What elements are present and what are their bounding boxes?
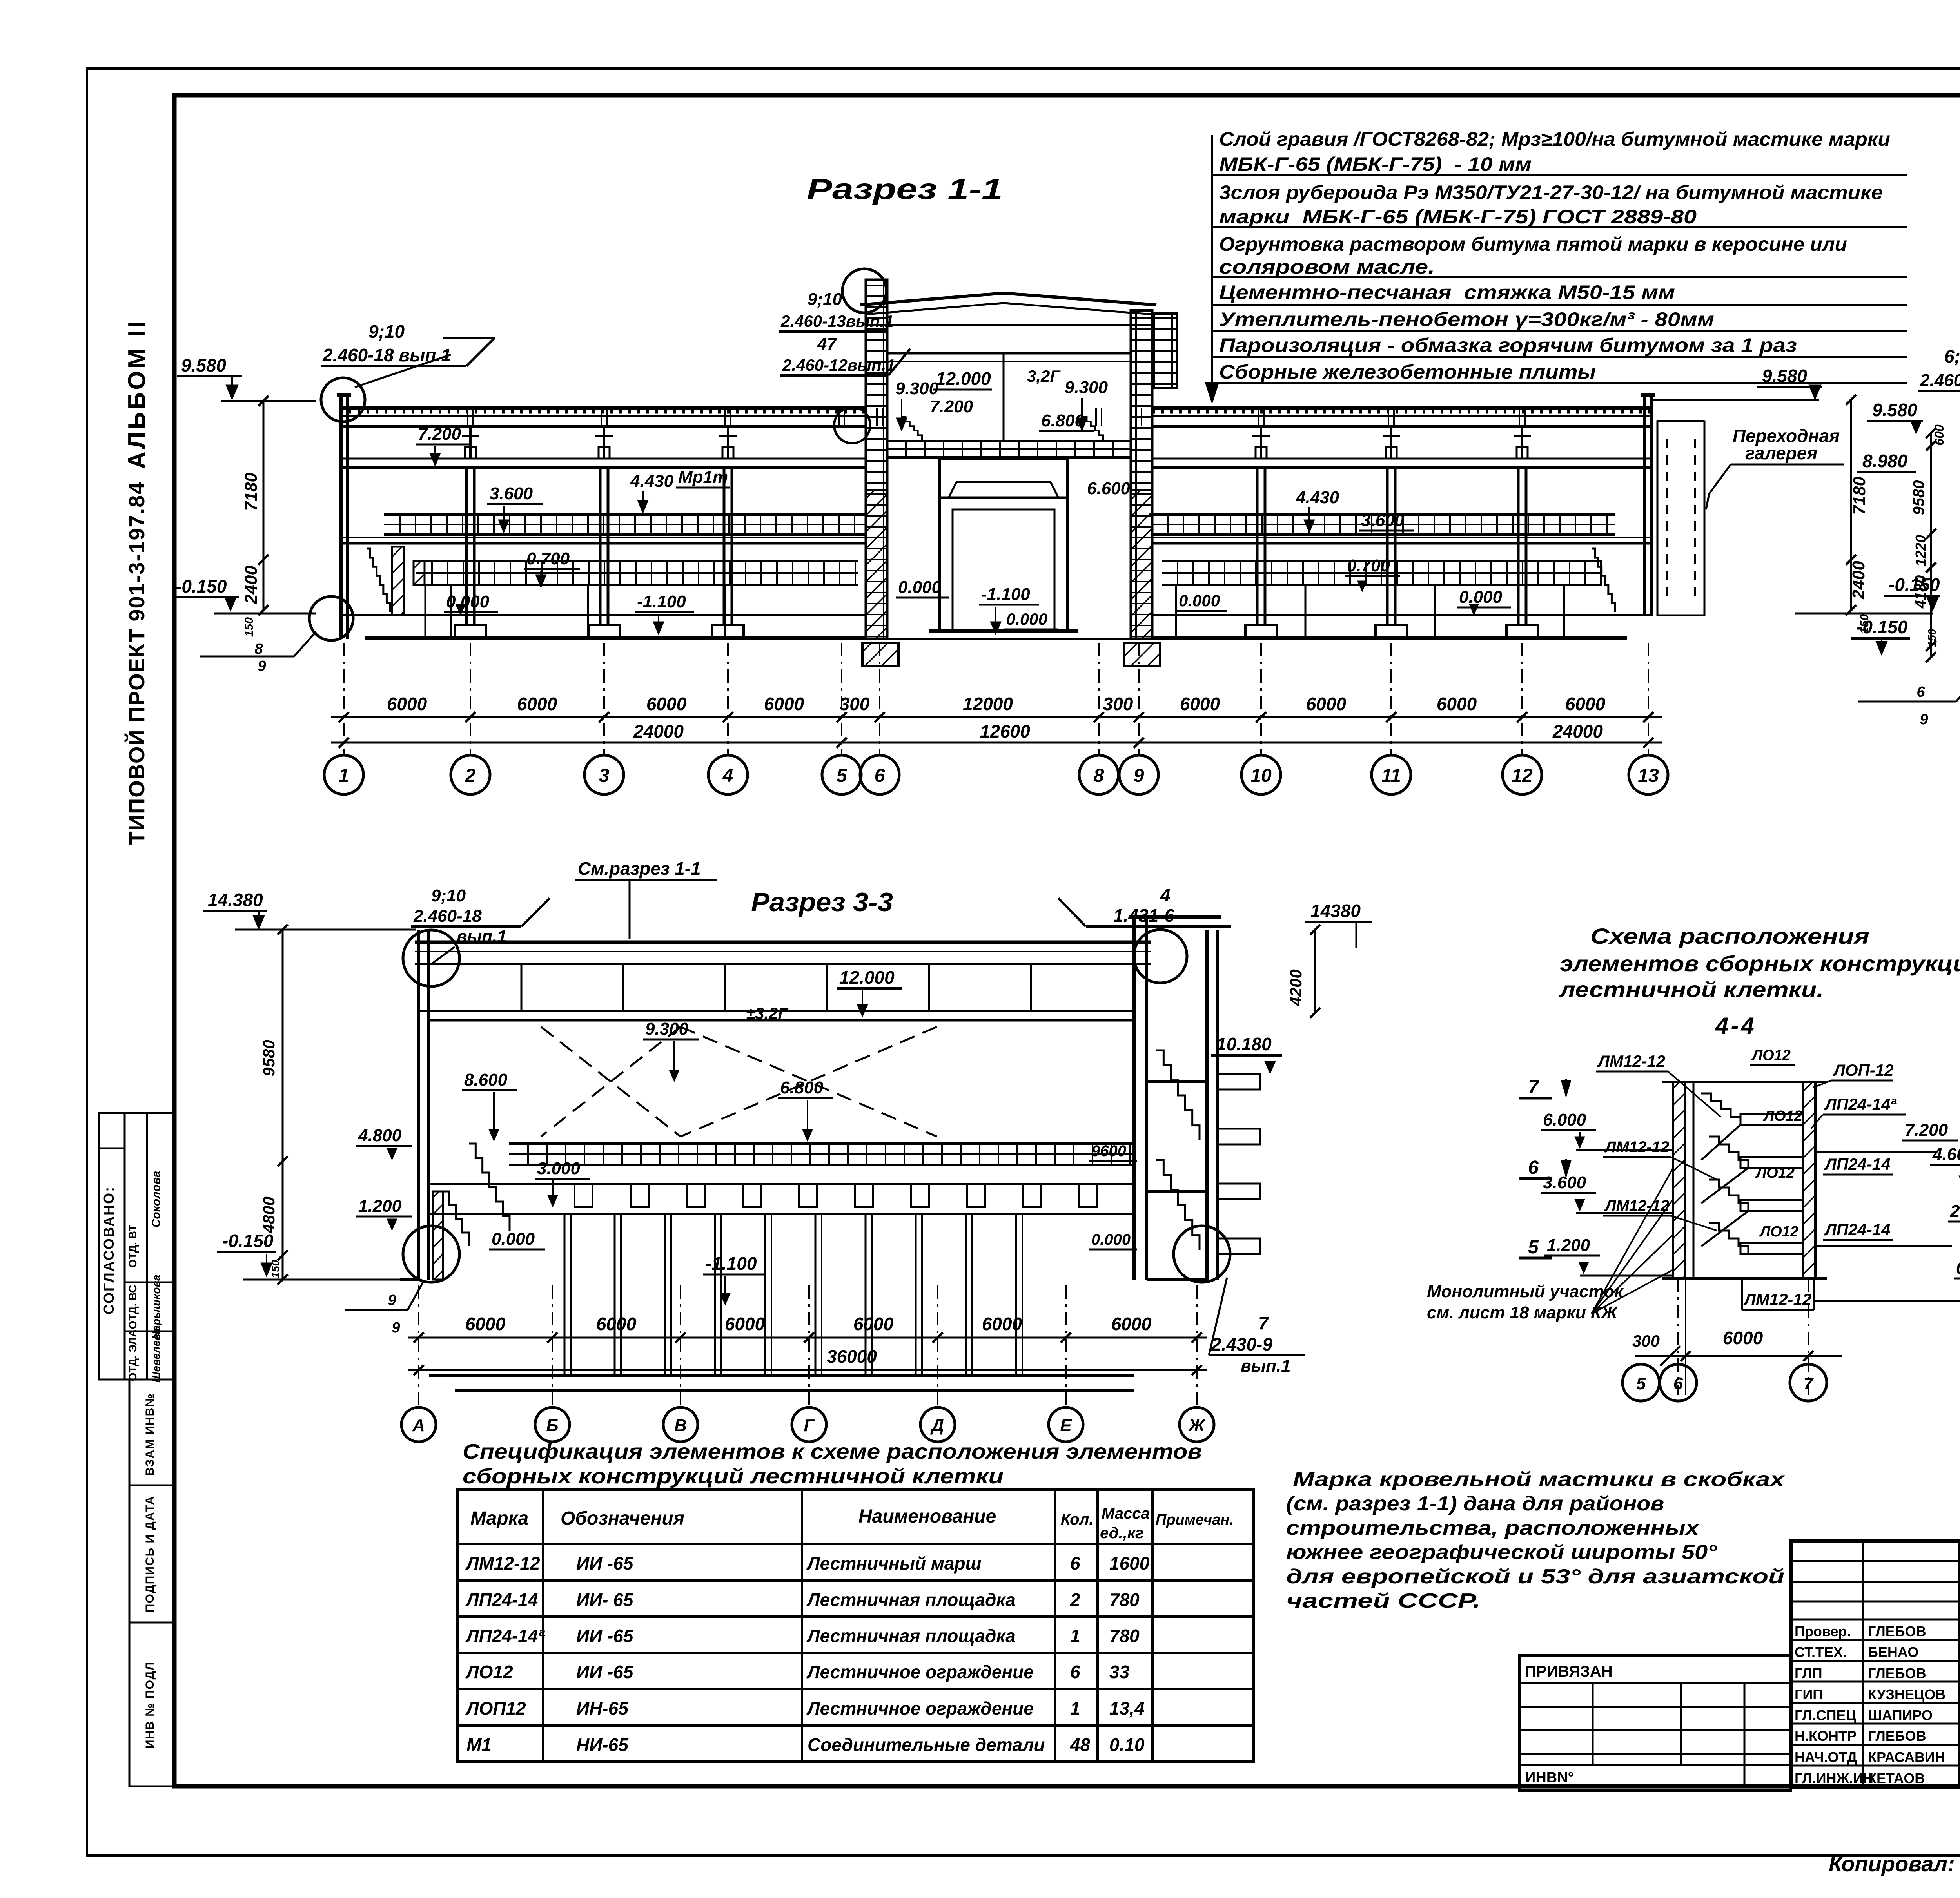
basement pit right — [1152, 636, 1627, 640]
margin cells inv/sign — [129, 1380, 174, 1786]
svg-text:6.800: 6.800 — [1041, 411, 1085, 430]
svg-text:47: 47 — [817, 334, 837, 353]
svg-text:0.10: 0.10 — [1109, 1735, 1145, 1755]
section 1-1 right wing roof — [1152, 406, 1653, 410]
svg-text:6: 6 — [1070, 1662, 1080, 1682]
svg-text:9580: 9580 — [260, 1040, 278, 1076]
svg-text:1: 1 — [339, 765, 349, 786]
left wing tank end wall — [414, 561, 425, 585]
svg-text:9.580: 9.580 — [181, 355, 227, 375]
svg-text:1: 1 — [1070, 1698, 1080, 1719]
svg-text:ЛО12: ЛО12 — [465, 1662, 513, 1682]
svg-text:9.300: 9.300 — [895, 379, 939, 398]
svg-text:Масса: Масса — [1102, 1505, 1150, 1522]
detail 4-4 landings — [1740, 1114, 1803, 1125]
svg-text:3: 3 — [599, 765, 610, 786]
svg-text:4800: 4800 — [260, 1196, 278, 1233]
svg-text:4: 4 — [1160, 885, 1171, 905]
svg-text:12: 12 — [1512, 765, 1533, 786]
svg-text:150: 150 — [269, 1260, 281, 1278]
pylon top circle — [842, 269, 886, 313]
central bay door — [940, 498, 1067, 631]
svg-text:ГЛЕБОВ: ГЛЕБОВ — [1868, 1728, 1926, 1744]
ground line 0.000 right — [1152, 614, 1653, 616]
svg-text:12.000: 12.000 — [839, 967, 895, 988]
pylon mid circle — [834, 407, 870, 443]
detail 4-4 walls — [1673, 1082, 1685, 1278]
svg-text:13,4: 13,4 — [1109, 1698, 1145, 1719]
svg-text:9;10: 9;10 — [431, 886, 466, 905]
section 2-2 bottom-left leader 6/9 — [1858, 701, 1956, 703]
svg-text:780: 780 — [1109, 1590, 1140, 1610]
svg-text:ИИ -65: ИИ -65 — [576, 1626, 634, 1646]
svg-text:КРАСАВИН: КРАСАВИН — [1868, 1749, 1945, 1765]
svg-text:Ж: Ж — [1188, 1416, 1206, 1435]
svg-text:Провер.: Провер. — [1795, 1623, 1851, 1639]
svg-text:СТ.ТЕХ.: СТ.ТЕХ. — [1795, 1644, 1847, 1660]
detail 4-4 axis circles — [1622, 1364, 1659, 1401]
svg-text:ЛП24-14ª: ЛП24-14ª — [1824, 1095, 1897, 1113]
svg-text:300: 300 — [840, 694, 870, 714]
svg-text:4.430: 4.430 — [630, 471, 674, 491]
svg-text:ЛО12: ЛО12 — [1751, 1047, 1791, 1064]
svg-text:АЛЬБОМ II: АЛЬБОМ II — [123, 319, 151, 469]
svg-text:ПОДПИСЬ И ДАТА: ПОДПИСЬ И ДАТА — [143, 1496, 156, 1612]
svg-text:150: 150 — [243, 617, 256, 637]
section 3-3 tank cells — [429, 1213, 1134, 1215]
svg-text:Обозначения: Обозначения — [561, 1508, 684, 1529]
svg-text:6: 6 — [1916, 684, 1925, 700]
svg-text:6: 6 — [1528, 1157, 1539, 1178]
svg-text:ЛП24-14: ЛП24-14 — [1824, 1155, 1890, 1173]
svg-text:ЛО12: ЛО12 — [1755, 1165, 1795, 1181]
svg-text:см. лист 18 марки КЖ: см. лист 18 марки КЖ — [1427, 1303, 1618, 1322]
svg-text:марки МБК-Г-65 (МБК-Г-75) ГОС: марки МБК-Г-65 (МБК-Г-75) ГОСТ 2889-80 — [1219, 206, 1697, 228]
svg-text:3.600: 3.600 — [490, 484, 533, 503]
svg-text:1.200: 1.200 — [358, 1196, 402, 1216]
svg-text:9.300: 9.300 — [645, 1019, 689, 1039]
section 3-3 tank top channels — [429, 1183, 1134, 1185]
spec table rows — [465, 1553, 1150, 1755]
svg-text:7: 7 — [1258, 1313, 1269, 1333]
svg-text:4.600: 4.600 — [1932, 1145, 1960, 1164]
svg-text:Разрез 3-3: Разрез 3-3 — [751, 887, 893, 917]
svg-text:Примечан.: Примечан. — [1156, 1512, 1234, 1528]
svg-text:9: 9 — [1134, 765, 1144, 786]
svg-text:галерея: галерея — [1745, 443, 1817, 463]
detail 4-4 stair flights — [1701, 1093, 1740, 1125]
svg-text:2: 2 — [465, 765, 476, 786]
section 3-3 crane level 12.000 — [429, 1019, 1134, 1022]
svg-text:2.460-12вып.1: 2.460-12вып.1 — [782, 356, 895, 374]
section 3-3 crane X braces — [681, 1027, 937, 1137]
svg-text:Лестничная площадка: Лестничная площадка — [806, 1590, 1016, 1610]
svg-text:6000: 6000 — [1437, 694, 1477, 714]
spec table — [457, 1489, 1254, 1761]
left vertical dim chain — [263, 401, 265, 610]
svg-text:Марка: Марка — [470, 1508, 528, 1529]
svg-text:7.200: 7.200 — [1905, 1120, 1948, 1140]
svg-text:ГЛЕБОВ: ГЛЕБОВ — [1868, 1665, 1926, 1681]
section 3-3 bottom-left 9/9 — [345, 1309, 408, 1311]
svg-text:Разрез 1-1: Разрез 1-1 — [807, 173, 1003, 205]
basement pit left — [365, 636, 866, 640]
svg-text:9;10: 9;10 — [808, 290, 842, 309]
svg-text:Лестничная площадка: Лестничная площадка — [806, 1626, 1016, 1646]
svg-text:3.600: 3.600 — [1361, 511, 1405, 530]
tank partitions right wing — [1175, 585, 1177, 638]
right wing staircase — [1592, 549, 1615, 612]
central bay roof — [860, 293, 1156, 305]
svg-text:10.180: 10.180 — [1216, 1034, 1272, 1054]
svg-text:НАЧ.ОТД: НАЧ.ОТД — [1795, 1749, 1857, 1765]
svg-text:Огрунтовка раствором битума пя: Огрунтовка раствором битума пятой марки … — [1219, 233, 1847, 255]
central bay small stairs — [902, 417, 922, 440]
roof plate joints — [467, 408, 468, 426]
svg-text:8.600: 8.600 — [464, 1070, 508, 1089]
svg-text:Лестничное ограждение: Лестничное ограждение — [806, 1662, 1034, 1682]
svg-text:6000: 6000 — [982, 1314, 1022, 1334]
svg-text:4.430: 4.430 — [1296, 488, 1339, 507]
svg-text:Наименование: Наименование — [858, 1506, 996, 1527]
section 1-1 tank walls band 0.700 — [416, 560, 858, 562]
svg-text:6000: 6000 — [725, 1314, 765, 1334]
svg-text:НИ-65: НИ-65 — [576, 1735, 629, 1755]
approval table СОГЛАСОВАНО — [99, 1113, 174, 1380]
svg-text:ОТД. ВТ: ОТД. ВТ — [127, 1225, 139, 1268]
central bay base — [929, 629, 1078, 633]
svg-text:Монолитный участок: Монолитный участок — [1427, 1282, 1624, 1301]
svg-text:2.460-18 вып.1: 2.460-18 вып.1 — [322, 345, 451, 365]
svg-text:9: 9 — [392, 1320, 400, 1336]
svg-text:6000: 6000 — [1723, 1328, 1763, 1348]
section 1-1 axis circles — [324, 755, 363, 794]
svg-text:ИНВN°: ИНВN° — [1525, 1769, 1574, 1786]
svg-text:ОТД. ВС: ОТД. ВС — [127, 1285, 139, 1329]
svg-text:6000: 6000 — [1565, 694, 1606, 714]
svg-text:8: 8 — [254, 641, 263, 657]
svg-text:5: 5 — [1636, 1374, 1646, 1393]
svg-text:ИИ- 65: ИИ- 65 — [576, 1590, 634, 1610]
svg-text:1: 1 — [1070, 1626, 1080, 1646]
title block left wing (privyazan) — [1519, 1655, 1791, 1791]
svg-text:МБК-Г-65 (МБК-Г-75) - 10 мм: МБК-Г-65 (МБК-Г-75) - 10 мм — [1219, 153, 1532, 175]
svg-text:-1.100: -1.100 — [706, 1253, 757, 1274]
svg-text:ЛО12: ЛО12 — [1759, 1224, 1798, 1240]
section 3-3 bottom circles — [403, 1226, 459, 1282]
detail 4-4 bottom dims — [1677, 1278, 1679, 1395]
section 1-1 right wall axis 13 — [1643, 395, 1646, 615]
svg-text:ГЛП: ГЛП — [1795, 1665, 1822, 1681]
svg-text:ИИ -65: ИИ -65 — [576, 1662, 634, 1682]
svg-text:для европейской и 53° для а: для европейской и 53° для азиатской — [1286, 1565, 1784, 1588]
svg-text:ЛМ12-12: ЛМ12-12 — [1604, 1197, 1669, 1215]
svg-text:6000: 6000 — [853, 1314, 894, 1334]
svg-text:лестничной клетки.: лестничной клетки. — [1559, 977, 1824, 1002]
svg-text:1600: 1600 — [1109, 1553, 1150, 1574]
svg-text:2400: 2400 — [241, 566, 261, 604]
svg-text:6000: 6000 — [387, 694, 427, 714]
svg-text:14380: 14380 — [1310, 901, 1361, 921]
svg-text:ИН-65: ИН-65 — [576, 1698, 629, 1719]
roof layers text — [1219, 128, 1890, 383]
svg-text:1.431-6: 1.431-6 — [1113, 905, 1174, 926]
svg-text:Цементно-песчаная стяжка М50-: Цементно-песчаная стяжка М50-15 мм — [1219, 281, 1675, 303]
svg-text:6000: 6000 — [764, 694, 804, 714]
svg-text:3.600: 3.600 — [1543, 1173, 1586, 1192]
spec table header labels — [470, 1505, 1234, 1542]
mastic note — [1286, 1468, 1786, 1612]
svg-text:12000: 12000 — [963, 694, 1013, 714]
svg-text:ШАПИРО: ШАПИРО — [1868, 1707, 1933, 1723]
svg-text:12600: 12600 — [980, 721, 1030, 741]
svg-text:Марка кровельной мастики в: Марка кровельной мастики в скобках — [1293, 1468, 1786, 1491]
section 1-1 left wing roof — [339, 406, 866, 410]
svg-text:0.000: 0.000 — [446, 592, 490, 611]
svg-text:ГИП: ГИП — [1795, 1686, 1823, 1702]
svg-text:14.380: 14.380 — [208, 890, 263, 910]
svg-text:6: 6 — [1673, 1374, 1683, 1393]
node circle axis1 top — [321, 378, 365, 422]
svg-text:Д: Д — [930, 1416, 944, 1435]
svg-text:7180: 7180 — [241, 473, 261, 511]
svg-text:-0.150: -0.150 — [1857, 617, 1908, 637]
svg-text:2.400: 2.400 — [1950, 1202, 1960, 1221]
svg-text:600: 600 — [1932, 424, 1946, 446]
svg-text:2.460-188вып.1: 2.460-188вып.1 — [1920, 371, 1960, 390]
svg-text:Е: Е — [1060, 1416, 1072, 1435]
svg-text:частей СССР.: частей СССР. — [1286, 1590, 1481, 1612]
svg-text:1.200: 1.200 — [1547, 1236, 1590, 1255]
svg-text:0.000: 0.000 — [1956, 1258, 1960, 1278]
section 3-3 left staircase — [469, 1144, 510, 1231]
svg-text:±3,2Г: ±3,2Г — [746, 1004, 789, 1022]
crane rail posts — [469, 426, 472, 459]
svg-text:Г: Г — [804, 1416, 815, 1435]
svg-text:6.000: 6.000 — [1543, 1110, 1586, 1129]
svg-text:48: 48 — [1070, 1735, 1091, 1755]
svg-text:13: 13 — [1638, 765, 1659, 786]
svg-text:3слоя рубероида Рэ М350/ТУ21-2: 3слоя рубероида Рэ М350/ТУ21-27-30-12/ н… — [1219, 181, 1883, 203]
svg-text:6.600: 6.600 — [1087, 479, 1131, 498]
svg-text:ЛМ12-12: ЛМ12-12 — [1604, 1138, 1669, 1156]
svg-text:-1.100: -1.100 — [981, 585, 1030, 604]
svg-text:М1: М1 — [466, 1735, 492, 1755]
section 1-1 floor 7.200 — [339, 458, 866, 460]
section 3-3 right outrigger slabs — [1217, 1074, 1260, 1089]
svg-text:-0.150: -0.150 — [222, 1231, 274, 1251]
section 3-3 axis circles — [401, 1407, 436, 1442]
svg-text:36000: 36000 — [827, 1346, 877, 1367]
svg-text:7: 7 — [1528, 1077, 1539, 1098]
title block left columns — [1862, 1541, 1864, 1787]
section 3-3 dims 6000 — [408, 1337, 1207, 1339]
svg-text:2.430-9: 2.430-9 — [1211, 1334, 1272, 1354]
roof layers underlines — [1212, 174, 1907, 176]
svg-text:Соединительные детали: Соединительные детали — [808, 1735, 1045, 1755]
svg-text:4180: 4180 — [1913, 575, 1929, 609]
section 3-3 left dim chain — [282, 930, 284, 1280]
svg-text:ЛОП12: ЛОП12 — [465, 1698, 526, 1719]
section 3-3 roof posts — [521, 964, 523, 1011]
svg-text:ЛО12: ЛО12 — [1763, 1108, 1802, 1124]
svg-text:0.700: 0.700 — [1347, 556, 1390, 575]
svg-text:ГЛ.СПЕЦ: ГЛ.СПЕЦ — [1795, 1707, 1857, 1723]
central bay center post — [1003, 353, 1005, 441]
svg-text:вып.1: вып.1 — [1241, 1356, 1291, 1376]
svg-text:Сборные железобетонные плиты: Сборные железобетонные плиты — [1219, 361, 1596, 383]
svg-text:Кол.: Кол. — [1061, 1511, 1094, 1528]
section 1-1 left wall axis 1 — [339, 395, 343, 639]
roof layers leader — [1211, 135, 1213, 394]
svg-text:24000: 24000 — [1552, 721, 1603, 741]
section 1-1 dimension line totals — [331, 742, 1662, 744]
gallery annex right (Perekhodnaya galereya) — [1657, 421, 1704, 615]
svg-text:-0.150: -0.150 — [176, 576, 227, 596]
svg-text:СОГЛАСОВАНО:: СОГЛАСОВАНО: — [101, 1186, 117, 1314]
svg-text:6000: 6000 — [646, 694, 687, 714]
svg-text:0.000: 0.000 — [492, 1229, 535, 1249]
svg-text:КУЗНЕЦОВ: КУЗНЕЦОВ — [1868, 1686, 1945, 1702]
svg-text:южнее географической широты: южнее географической широты 50° — [1286, 1541, 1717, 1564]
tank partitions left wing — [450, 585, 452, 638]
svg-text:ЛОП-12: ЛОП-12 — [1833, 1061, 1893, 1079]
svg-text:ЛМ12-12: ЛМ12-12 — [465, 1553, 540, 1574]
svg-text:0.000: 0.000 — [1091, 1231, 1131, 1248]
svg-text:ЛП24-14: ЛП24-14 — [1824, 1220, 1890, 1239]
svg-text:9580: 9580 — [1910, 480, 1927, 515]
svg-text:9.580: 9.580 — [1762, 366, 1808, 386]
svg-text:Мр1т: Мр1т — [678, 468, 728, 487]
ground line 0.000 left — [339, 614, 866, 616]
svg-text:9.580: 9.580 — [1872, 400, 1918, 420]
svg-text:6000: 6000 — [596, 1314, 637, 1334]
section 3-3 base — [400, 1278, 419, 1281]
section 3-3 top-right circle — [1134, 930, 1187, 983]
svg-text:12.000: 12.000 — [936, 368, 991, 389]
svg-text:В: В — [674, 1416, 687, 1435]
svg-text:-1.100: -1.100 — [637, 592, 686, 611]
section 1-1 dimension line 6000s — [331, 716, 1662, 718]
svg-text:Шевелева: Шевелева — [150, 1328, 162, 1383]
svg-text:4200: 4200 — [1287, 969, 1305, 1006]
svg-text:9: 9 — [258, 658, 266, 674]
svg-text:строительства, расположенных: строительства, расположенных — [1286, 1517, 1700, 1539]
svg-text:(см. разрез 1-1) дана для р: (см. разрез 1-1) дана для районов — [1286, 1492, 1664, 1515]
svg-text:4.800: 4.800 — [358, 1126, 402, 1145]
svg-text:ед.,кг: ед.,кг — [1100, 1525, 1143, 1542]
svg-text:вып.1: вып.1 — [457, 927, 507, 946]
svg-text:5: 5 — [837, 765, 848, 786]
scheme title — [1559, 924, 1960, 1002]
svg-text:ВЗАМ ИНВ№: ВЗАМ ИНВ№ — [143, 1393, 156, 1476]
central bay girder — [940, 459, 1067, 498]
svg-text:2.460-18: 2.460-18 — [413, 906, 482, 926]
svg-text:6;10: 6;10 — [1944, 346, 1960, 366]
svg-text:8: 8 — [1094, 765, 1104, 786]
central bay left pylon — [866, 280, 887, 639]
svg-text:11: 11 — [1381, 765, 1401, 786]
svg-text:ГЛ.ИНЖ.ИН: ГЛ.ИНЖ.ИН — [1795, 1770, 1873, 1786]
svg-text:сборных конструкций лестничн: сборных конструкций лестничной клетки — [463, 1465, 1004, 1488]
svg-text:300: 300 — [1103, 694, 1133, 714]
left wing staircase — [367, 549, 390, 612]
svg-text:3.000: 3.000 — [537, 1159, 581, 1178]
svg-text:БЕНАО: БЕНАО — [1868, 1644, 1918, 1660]
svg-text:24000: 24000 — [633, 721, 684, 741]
central bay ceiling — [887, 352, 1131, 355]
svg-text:6000: 6000 — [1111, 1314, 1152, 1334]
svg-text:Схема расположения: Схема расположения — [1590, 924, 1869, 948]
svg-text:9;10: 9;10 — [368, 321, 405, 342]
section 3-3 gallery band 8.600 — [509, 1142, 1134, 1145]
svg-text:5: 5 — [1528, 1237, 1539, 1258]
svg-text:6: 6 — [875, 765, 885, 786]
svg-text:7.200: 7.200 — [930, 397, 973, 416]
section 3-3 roof — [415, 941, 1151, 944]
svg-text:КЕТАОВ: КЕТАОВ — [1868, 1770, 1925, 1786]
svg-text:0.700: 0.700 — [526, 549, 570, 568]
node circle axis1 bottom — [309, 596, 353, 640]
section 3-3 right staircase tower — [1156, 1050, 1200, 1140]
svg-text:9600: 9600 — [1091, 1142, 1126, 1160]
title block left part rows — [1791, 1560, 1960, 1562]
svg-text:ИИ -65: ИИ -65 — [576, 1553, 634, 1574]
svg-text:Спецификация элементов к схем: Спецификация элементов к схеме расположе… — [463, 1440, 1202, 1463]
svg-text:150: 150 — [1926, 629, 1938, 647]
svg-text:6.800: 6.800 — [780, 1078, 824, 1097]
svg-text:6000: 6000 — [1306, 694, 1347, 714]
central bay right pylon — [1131, 310, 1152, 639]
svg-text:элементов сборных конструкций: элементов сборных конструкций — [1560, 951, 1960, 976]
svg-text:ЛП24-14ª: ЛП24-14ª — [465, 1626, 545, 1646]
svg-text:9.300: 9.300 — [1065, 378, 1108, 397]
svg-text:ТИПОВОЙ ПРОЕКТ 901-3-197.84: ТИПОВОЙ ПРОЕКТ 901-3-197.84 — [124, 482, 149, 845]
title block main — [1791, 1541, 1960, 1787]
svg-text:ЛП24-14: ЛП24-14 — [465, 1590, 538, 1610]
svg-text:6000: 6000 — [465, 1314, 506, 1334]
svg-text:4-4: 4-4 — [1715, 1013, 1757, 1039]
section 3-3 dims 36000 — [408, 1369, 1207, 1371]
svg-text:0.000: 0.000 — [1006, 610, 1047, 628]
svg-text:7: 7 — [1804, 1374, 1814, 1393]
svg-text:ГЛЕБОВ: ГЛЕБОВ — [1868, 1623, 1926, 1639]
svg-text:3,2Г: 3,2Г — [1027, 367, 1061, 385]
title block name rows text — [1795, 1623, 1945, 1786]
section 2-2 left dim chain — [1930, 433, 1932, 657]
svg-text:300: 300 — [1632, 1332, 1660, 1350]
svg-text:Пароизоляция - обмазка горячим: Пароизоляция - обмазка горячим битумом з… — [1219, 334, 1797, 356]
svg-text:ПРИВЯЗАН: ПРИВЯЗАН — [1525, 1663, 1613, 1680]
svg-text:6000: 6000 — [1180, 694, 1220, 714]
svg-text:ОТД. ЭЛА: ОТД. ЭЛА — [127, 1329, 139, 1381]
svg-text:8.980: 8.980 — [1862, 451, 1908, 471]
svg-text:2.460-13вып.1: 2.460-13вып.1 — [780, 312, 894, 330]
svg-text:ЛМ12-12: ЛМ12-12 — [1597, 1052, 1665, 1070]
svg-text:Утеплитель-пенобетон γ=300кг/м: Утеплитель-пенобетон γ=300кг/м³ - 80мм — [1219, 308, 1714, 330]
svg-text:4: 4 — [722, 765, 733, 786]
svg-text:6: 6 — [1070, 1553, 1080, 1574]
svg-text:2400: 2400 — [1849, 561, 1868, 600]
svg-text:Н.КОНТР: Н.КОНТР — [1795, 1728, 1857, 1744]
columns axes 2,3,4,10,11,12 — [465, 467, 468, 625]
svg-text:Соколова: Соколова — [150, 1171, 163, 1228]
svg-text:6000: 6000 — [517, 694, 557, 714]
svg-text:7.200: 7.200 — [418, 424, 461, 444]
svg-text:9: 9 — [1920, 711, 1928, 728]
svg-text:Слой гравия /ГОСТ8268-82; Мрз≥: Слой гравия /ГОСТ8268-82; Мрз≥100/на бит… — [1219, 128, 1890, 150]
right vertical dim chain — [1850, 400, 1852, 610]
